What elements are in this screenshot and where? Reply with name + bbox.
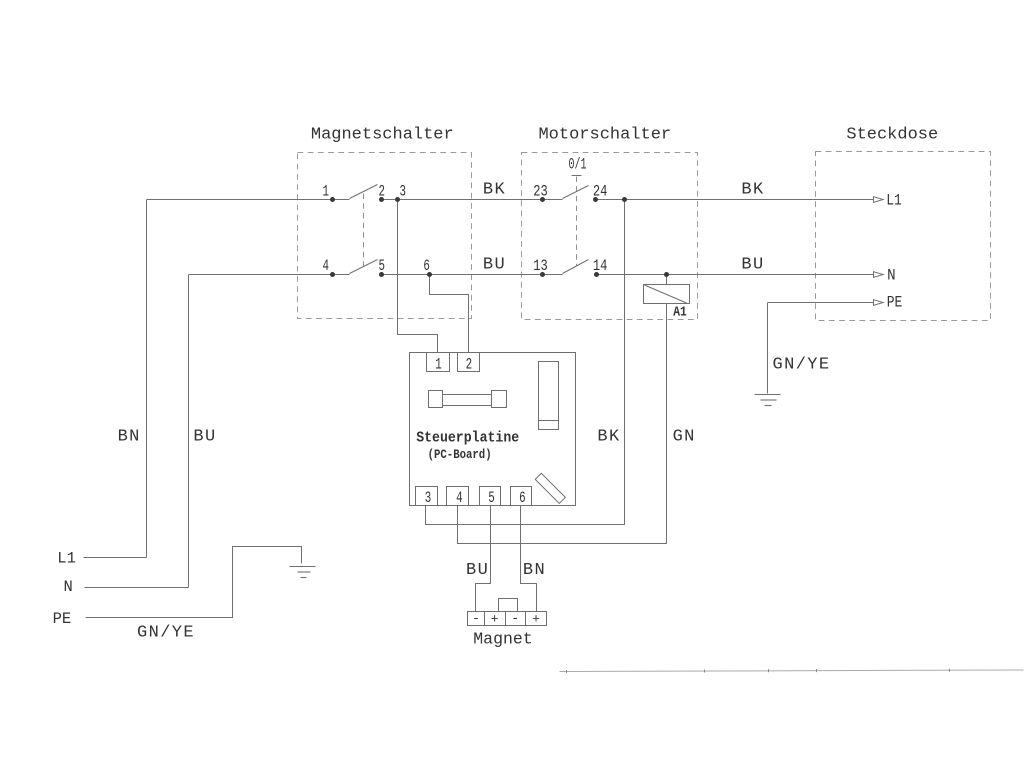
svg-text:BK: BK [597,428,620,447]
svg-text:BK: BK [741,181,764,200]
svg-text:A1: A1 [673,305,687,321]
svg-text:L1: L1 [886,192,902,210]
svg-text:Steuerplatine: Steuerplatine [416,429,519,446]
svg-text:GN/YE: GN/YE [137,624,195,643]
svg-text:GN: GN [673,428,696,447]
svg-text:3: 3 [425,489,432,507]
svg-text:24: 24 [593,182,608,200]
svg-text:BK: BK [483,181,506,200]
svg-text:2: 2 [379,182,386,200]
svg-text:13: 13 [533,257,548,275]
svg-text:(PC-Board): (PC-Board) [428,448,492,462]
svg-text:PE: PE [887,293,903,311]
svg-text:-: - [511,611,519,626]
svg-text:Steckdose: Steckdose [846,125,938,144]
svg-text:Magnetschalter: Magnetschalter [311,125,454,144]
svg-text:23: 23 [533,182,548,200]
svg-text:BN: BN [523,561,546,580]
svg-text:0/1: 0/1 [569,156,587,174]
svg-text:1: 1 [435,355,442,373]
svg-text:5: 5 [488,489,495,507]
svg-text:6: 6 [423,257,430,275]
svg-text:Motorschalter: Motorschalter [538,125,671,144]
svg-text:1: 1 [322,182,329,200]
svg-text:BU: BU [466,561,489,580]
svg-text:6: 6 [519,489,526,507]
svg-text:BU: BU [193,428,216,447]
svg-text:BU: BU [741,256,764,275]
svg-text:3: 3 [399,182,406,200]
svg-text:2: 2 [466,355,473,373]
svg-text:PE: PE [53,610,72,628]
svg-text:14: 14 [593,257,608,275]
svg-text:4: 4 [322,257,329,275]
svg-text:GN/YE: GN/YE [772,356,830,375]
svg-text:L1: L1 [57,550,76,568]
svg-text:N: N [64,578,73,596]
svg-text:-: - [472,611,480,626]
svg-text:5: 5 [379,257,386,275]
svg-text:Magnet: Magnet [473,629,532,648]
svg-text:4: 4 [456,489,463,507]
svg-text:BN: BN [118,428,141,447]
svg-text:BU: BU [483,256,506,275]
svg-text:N: N [887,267,896,285]
svg-text:+: + [532,612,540,627]
svg-text:+: + [491,612,499,627]
